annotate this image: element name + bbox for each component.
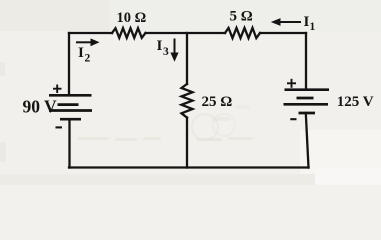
svg-text:125 V: 125 V <box>337 94 374 110</box>
svg-text:I: I <box>78 45 84 61</box>
wire top-left segment <box>69 32 112 34</box>
wire bottom <box>69 166 309 168</box>
svg-text:5 Ω: 5 Ω <box>230 9 253 25</box>
faint bleed circle <box>192 114 218 140</box>
resistor R1 10 ohm zigzag <box>112 28 146 38</box>
svg-text:25 Ω: 25 Ω <box>202 94 233 110</box>
minus sign of battery B2 <box>290 118 296 120</box>
minus sign of battery B1 <box>56 126 63 128</box>
wire top-right segment <box>260 32 306 34</box>
svg-text:1: 1 <box>310 21 316 33</box>
page background <box>0 0 381 185</box>
resistor R2 5 ohm zigzag <box>225 28 260 38</box>
faint bleed-through text band <box>0 62 252 162</box>
battery B1 90 V plates <box>49 95 92 119</box>
wire top-middle segment <box>146 32 226 34</box>
svg-text:I: I <box>157 38 163 54</box>
wire right branch upper <box>305 33 307 90</box>
wire middle branch upper <box>186 33 188 84</box>
svg-text:10 Ω: 10 Ω <box>117 10 147 26</box>
resistor R3 25 ohm vertical zigzag <box>182 84 193 118</box>
svg-text:2: 2 <box>85 53 91 65</box>
wire left branch upper <box>68 33 70 95</box>
wire left branch lower <box>68 119 70 167</box>
svg-text:90 V: 90 V <box>23 96 58 116</box>
current arrow I2 <box>76 38 100 46</box>
svg-text:3: 3 <box>163 46 169 58</box>
current arrow I1 <box>271 18 301 26</box>
plus sign of battery B2 <box>287 79 296 88</box>
wire right branch lower <box>306 113 309 168</box>
wire middle branch lower <box>186 118 188 168</box>
current arrow I3 <box>170 39 178 62</box>
plus sign of battery B1 <box>53 85 62 94</box>
battery B2 125 V plates <box>284 90 330 113</box>
